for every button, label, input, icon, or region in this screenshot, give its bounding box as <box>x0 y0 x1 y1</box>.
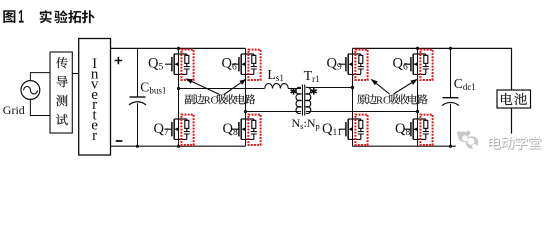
arrow to Q9 snubber <box>371 79 390 94</box>
svg-text:Ls1: Ls1 <box>267 68 284 83</box>
junction dots right bridge <box>351 47 452 148</box>
svg-text:Q6: Q6 <box>393 55 408 72</box>
svg-text:Q8: Q8 <box>395 121 410 138</box>
AC source (Grid) <box>21 81 40 100</box>
minus label <box>116 140 123 142</box>
junction dot Cbus1 bottom <box>136 145 139 148</box>
wire transformer bottom to right leg B <box>306 111 418 113</box>
svg-text:Q6: Q6 <box>222 55 237 72</box>
inductor Ls1 <box>265 84 289 89</box>
polarity dot right <box>311 88 317 95</box>
wire inductor to transformer <box>288 88 301 90</box>
wire grid bottom <box>30 99 50 115</box>
inverter box <box>79 39 111 156</box>
wire right leg B <box>417 48 419 146</box>
polarity dot left <box>291 88 297 95</box>
arrow to Q6 snubber <box>224 79 247 95</box>
transformer Tr1 <box>296 85 311 116</box>
wire left leg A <box>178 48 180 146</box>
capacitor Cdc1 <box>442 48 459 146</box>
arrow to right Q6 snubber <box>394 79 419 94</box>
svg-text:r: r <box>92 128 97 144</box>
svg-text:Ns:Np: Ns:Np <box>292 116 320 131</box>
wire bottom bus right <box>353 108 512 146</box>
watermark text 电动学堂 <box>488 136 541 150</box>
conducted EMI test box 传导测试 <box>50 52 72 133</box>
transistor Q9 with RC snubber <box>339 50 368 80</box>
wire transformer top to right leg A <box>309 87 353 89</box>
capacitor Cbus1 <box>129 48 146 146</box>
wire test-box to inverter <box>72 73 78 75</box>
watermark logo <box>456 131 484 149</box>
svg-text:Q7: Q7 <box>154 121 169 138</box>
svg-text:Tr1: Tr1 <box>304 69 321 84</box>
svg-text:Cbus1: Cbus1 <box>140 79 166 95</box>
transistor Q8 with RC snubber <box>232 115 261 145</box>
wire top bus right <box>353 48 512 90</box>
svg-text:Grid: Grid <box>3 103 25 117</box>
title 图 1 实验拓扑 <box>3 10 94 23</box>
svg-text:RC: RC <box>204 95 218 106</box>
label 原边RC吸收电路 <box>357 94 428 106</box>
wire bridge output top <box>179 88 265 90</box>
svg-text:Q8: Q8 <box>223 121 238 138</box>
svg-text:RC: RC <box>376 95 390 106</box>
arrow to Q5 snubber <box>185 78 219 94</box>
transistor Q11 with RC snubber <box>339 115 368 145</box>
wire left leg B <box>245 48 247 146</box>
transistor Q5 with RC snubber <box>165 50 194 80</box>
svg-text:Q5: Q5 <box>148 55 163 72</box>
transistor Q6 with RC snubber <box>232 50 261 80</box>
transistor Q6 right with RC snubber <box>404 50 433 80</box>
transistor Q8 right with RC snubber <box>404 115 433 145</box>
wire top bus left <box>111 47 246 49</box>
wire bottom bus left <box>111 145 246 147</box>
svg-text:Q11: Q11 <box>322 121 342 138</box>
wire bridge output bottom <box>246 111 301 113</box>
svg-text:Q9: Q9 <box>327 55 342 72</box>
junction dots left bridge <box>177 47 247 148</box>
transistor Q7 with RC snubber <box>165 115 194 145</box>
wire grid top <box>30 73 50 81</box>
label 副边RC吸收电路 <box>185 94 256 106</box>
wire right leg A <box>352 48 354 146</box>
battery box 电池 <box>497 90 531 108</box>
svg-text:Cdc1: Cdc1 <box>454 76 476 92</box>
plus label <box>115 57 123 65</box>
